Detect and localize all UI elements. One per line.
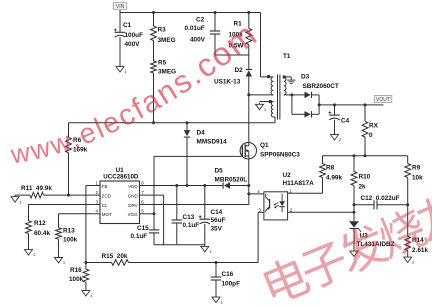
svg-text:400V: 400V (125, 41, 141, 48)
svg-text:60.4k: 60.4k (34, 230, 50, 237)
node junction D3 cathode (318, 103, 321, 106)
watermark text chinese dianzifashaoyou (261, 188, 432, 305)
resistor R3 (151, 26, 157, 41)
ground (259, 103, 261, 105)
wire VGG to gate (145, 213, 154, 215)
svg-text:D3: D3 (301, 74, 310, 81)
svg-text:2.61k: 2.61k (412, 247, 428, 254)
svg-text:RX: RX (369, 123, 379, 130)
node junction ZCD wire R5 (152, 121, 155, 124)
svg-text:CL: CL (102, 203, 108, 208)
op-amp U3 TL431 (349, 221, 359, 227)
svg-text:100k: 100k (69, 276, 84, 283)
node junction source D5 (247, 184, 250, 187)
resistor R1 (248, 13, 250, 29)
svg-text:3MEG: 3MEG (158, 37, 176, 44)
ground (58, 256, 60, 258)
wire ground rail (154, 244, 205, 246)
transformer T1 primary winding (271, 77, 273, 95)
capacitor C14 (204, 186, 206, 220)
node junction opto pin4 (247, 192, 250, 195)
ground (14, 195, 16, 197)
wire VIN to primary (260, 13, 262, 77)
node VIN tag (113, 3, 127, 10)
resistor R16 (85, 263, 87, 270)
svg-text:C13: C13 (183, 214, 195, 221)
node junction C12 left (353, 203, 356, 206)
resistor R6 (68, 123, 70, 138)
node junction TL431 opto (353, 211, 356, 214)
ground (407, 256, 409, 258)
svg-text:VDD: VDD (128, 184, 138, 189)
svg-text:C16: C16 (222, 271, 234, 278)
node junction R15 C16 (215, 261, 218, 264)
svg-text:SPP06N80C3: SPP06N80C3 (260, 151, 300, 158)
svg-text:0: 0 (369, 132, 373, 139)
svg-text:4.99k: 4.99k (326, 175, 342, 182)
svg-text:R13: R13 (63, 228, 75, 235)
svg-text:ZCD: ZCD (102, 193, 112, 198)
resistor R8 (322, 156, 324, 164)
svg-text:VGG: VGG (128, 212, 139, 217)
ground (85, 289, 87, 291)
node junction R10 divider rail (353, 154, 356, 157)
wire opto pin3 drop (258, 211, 264, 213)
node junction VGG C15 (153, 212, 156, 215)
transformer T1 auxiliary winding (271, 102, 273, 118)
svg-text:D2: D2 (235, 67, 244, 74)
svg-text:400V: 400V (190, 37, 206, 44)
svg-text:C2: C2 (196, 17, 205, 24)
svg-text:100k: 100k (63, 237, 78, 244)
diode D4 (186, 123, 188, 130)
wire DRV to source (145, 204, 249, 206)
transistor U2 phototransistor (269, 199, 271, 209)
node junction ZCD wire D4 (186, 121, 189, 124)
node junction top rail R1 (247, 11, 250, 14)
resistor R5 (151, 61, 157, 73)
svg-text:VOUT: VOUT (376, 97, 390, 103)
svg-text:VIN: VIN (116, 4, 125, 10)
svg-text:C4: C4 (341, 118, 350, 125)
wire secondary bottom (284, 94, 292, 96)
diode D5 (222, 182, 224, 188)
svg-text:C1: C1 (123, 22, 132, 29)
svg-text:35V: 35V (211, 226, 223, 233)
node junction RX divider rail (364, 154, 367, 157)
wire VIN drop (119, 10, 121, 13)
resistor R10 (353, 156, 355, 172)
wire opto pin4 (249, 193, 264, 195)
resistor R13 (56, 228, 62, 240)
svg-text:MMSD914: MMSD914 (197, 139, 228, 146)
svg-text:10k: 10k (412, 175, 423, 182)
svg-text:R16: R16 (70, 267, 82, 274)
svg-text:C15: C15 (137, 225, 149, 232)
ground (353, 250, 355, 252)
resistor RX (364, 103, 367, 106)
svg-text:U2: U2 (283, 172, 292, 179)
resistor R11 (15, 194, 30, 196)
diode D3 top half (292, 94, 305, 96)
transformer T1 core (277, 75, 279, 120)
wire MOT row (59, 213, 95, 215)
op-amp U1 UCC28610D (100, 181, 140, 224)
svg-text:R12: R12 (34, 220, 46, 227)
capacitor C15 (153, 214, 155, 230)
node junction C12 right (406, 203, 409, 206)
svg-text:R9: R9 (412, 165, 421, 172)
wire top rail (120, 12, 261, 14)
svg-text:R8: R8 (326, 165, 335, 172)
svg-text:0.01uF: 0.01uF (185, 25, 205, 32)
op-amp U2 opto box (264, 192, 288, 220)
node junction FB R15 (84, 261, 87, 264)
capacitor C13 (176, 186, 178, 221)
ground (28, 248, 30, 250)
svg-text:0.1uF: 0.1uF (131, 233, 148, 240)
diode D3 bottom half (292, 113, 305, 115)
resistor R14 (405, 236, 411, 250)
wire GND pin drop (145, 194, 164, 196)
wire CL row (29, 204, 95, 206)
svg-text:0.1uF: 0.1uF (183, 222, 200, 229)
svg-text:DRV: DRV (128, 203, 137, 208)
wire opto pin2 to TL431 (288, 211, 354, 213)
svg-text:SBR2060CT: SBR2060CT (303, 83, 339, 90)
svg-text:2k: 2k (359, 184, 367, 191)
svg-text:Q1: Q1 (260, 142, 269, 149)
node drain junction (247, 93, 250, 96)
svg-text:FB: FB (102, 184, 108, 189)
node junction top rail C2 (214, 11, 217, 14)
resistor R15 (112, 260, 129, 266)
wire primary bottom (249, 94, 273, 96)
ground (204, 245, 206, 247)
diode D2 (248, 55, 250, 70)
svg-text:UCC28610D: UCC28610D (103, 174, 139, 181)
node junction VDD C13 (175, 184, 178, 187)
node junction D3 anodes (290, 93, 293, 96)
watermark text www.elecfans.com (8, 16, 264, 170)
wire opto pin1 to R8 (288, 192, 323, 194)
capacitor C1 (119, 13, 121, 33)
resistor R12 (26, 221, 32, 234)
capacitor C4 (333, 103, 336, 106)
svg-text:D4: D4 (197, 130, 206, 137)
node junction R6 FB row (67, 194, 70, 197)
svg-text:US1K-13: US1K-13 (214, 79, 241, 86)
svg-text:MOT: MOT (102, 212, 112, 217)
svg-text:R3: R3 (158, 27, 167, 34)
wire VDD rail (145, 185, 223, 187)
ground (334, 133, 336, 135)
wire FB column (86, 185, 95, 187)
svg-text:100pF: 100pF (222, 280, 241, 287)
ground (119, 65, 121, 67)
svg-text:T1: T1 (283, 53, 291, 60)
svg-text:H11A817A: H11A817A (283, 180, 315, 187)
svg-text:R10: R10 (359, 174, 371, 181)
svg-text:C14: C14 (211, 209, 223, 216)
resistor R9 (407, 156, 409, 164)
transformer T1 secondary winding (284, 77, 286, 95)
svg-text:R5: R5 (158, 60, 167, 67)
svg-text:R11 49.9k: R11 49.9k (21, 185, 52, 192)
ground (290, 77, 292, 80)
node junction top rail R3 (152, 11, 155, 14)
node junction VDD C14 (203, 184, 206, 187)
capacitor C16 (215, 263, 217, 278)
svg-text:56uF: 56uF (211, 217, 226, 224)
svg-text:MBR0520L: MBR0520L (215, 177, 248, 184)
node junction VDD D4 (186, 184, 189, 187)
capacitor C2 (214, 13, 216, 32)
svg-text:R15 20k: R15 20k (102, 253, 128, 260)
transistor Q1 (240, 143, 256, 159)
svg-text:100uF: 100uF (125, 32, 144, 39)
wire divider top rail (323, 155, 408, 157)
svg-text:C12 0.022uF: C12 0.022uF (361, 195, 400, 202)
node VOUT tag (374, 96, 392, 103)
diode U2 LED (281, 194, 283, 202)
wire aux bottom (273, 116, 275, 118)
svg-text:D5: D5 (215, 168, 224, 175)
wire output rail (319, 104, 383, 106)
svg-text:GND: GND (128, 193, 139, 198)
wire snubber bottom (215, 54, 249, 56)
ground (215, 296, 217, 298)
